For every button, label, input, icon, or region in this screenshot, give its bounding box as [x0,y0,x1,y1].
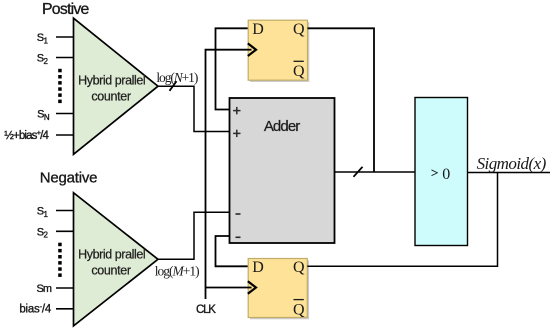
svg-text:Postive: Postive [42,1,90,18]
svg-text:log(N+1): log(N+1) [156,70,197,85]
bus slash (adder output) [354,167,363,177]
wire FF2 Q feedback to output node [307,173,497,267]
counter U2 (negative hybrid parallel counter) [74,193,159,326]
wire bias+ to U1 [56,134,74,136]
wire S2 to U1 [56,57,74,59]
svg-text:Hybrid prallel: Hybrid prallel [78,248,145,262]
flip-flop FF1 [248,20,307,80]
svg-text:D: D [252,21,264,38]
adder U3 [230,98,335,243]
flip-flop FF1 shadow [250,22,309,82]
flip-flop FF2 [248,259,307,318]
wire U1 output log(N+1) bus to adder +2 input [158,86,231,131]
svg-text:Sigmoid(x): Sigmoid(x) [477,154,547,173]
svg-text:½+bias+/4: ½+bias+/4 [4,128,49,142]
svg-text:Q: Q [293,301,305,318]
svg-text:Q: Q [293,259,305,276]
wire FF1 D to adder +1 input [216,28,249,109]
wire adder output bus to comparator [335,171,416,173]
pin - (adder input 3) [236,213,241,215]
svg-text:Q: Q [293,63,305,80]
comparator U4 (>0) [415,98,468,246]
svg-text:Adder: Adder [264,118,300,135]
wire S1 to U1 [56,36,74,38]
svg-text:CLK: CLK [196,304,216,316]
svg-text:Q: Q [293,21,305,38]
wire U2 output log(M+1) to adder -1 input [158,212,231,259]
wire S2 to U2 [56,230,74,232]
svg-text:log(M+1): log(M+1) [155,263,199,278]
wire SN to U1 [56,113,74,115]
wire CLK trunk [206,50,252,299]
pin + (adder input 1) [233,107,240,114]
svg-text:counter: counter [91,264,130,278]
svg-text:D: D [252,259,264,276]
svg-text:0: 0 [442,166,450,183]
wire S1 to U2 [56,210,74,212]
pin + (adder input 2) [233,130,240,137]
ellipsis dots (negative inputs) [58,243,62,277]
wire bias- to U2 [56,308,74,310]
wire FF1 Q feedback to adder output node [308,28,375,172]
clock chevron FF1 [248,43,257,56]
wire comparator output Sigmoid(x) [468,172,550,174]
wire Sm to U2 [56,287,74,289]
svg-text:>: > [431,165,438,180]
svg-text:Negative: Negative [40,170,98,187]
bus slash (log(N+1)) [170,81,177,91]
wire FF2 D to adder -2 input [216,236,249,266]
pin - (adder input 4) [236,237,241,239]
flip-flop FF2 shadow [250,260,309,319]
wire CLK branch to FF2 [206,287,252,289]
svg-text:bias-/4: bias-/4 [19,302,51,316]
svg-text:counter: counter [91,89,130,103]
ellipsis dots (positive inputs) [58,69,62,103]
svg-text:Sm: Sm [37,283,52,295]
counter U1 (positive hybrid parallel counter) [74,18,159,154]
clock chevron FF2 [248,281,257,294]
svg-text:Hybrid prallel: Hybrid prallel [78,74,145,88]
